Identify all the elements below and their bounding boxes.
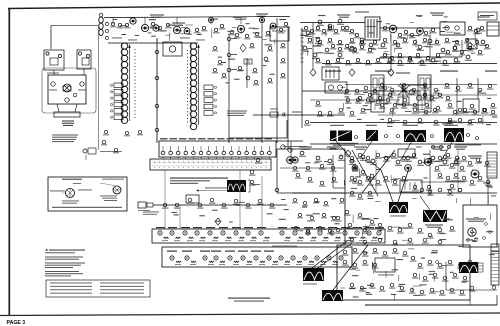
antenna input box 2 [77, 50, 91, 69]
tuner voltage box [229, 120, 287, 138]
wire link d [261, 176, 263, 229]
value label 5 [316, 52, 323, 53]
value label 175 [135, 35, 139, 36]
value label 33 [454, 33, 460, 34]
terminal strip dashed [300, 28, 304, 62]
component cluster audio3 16 [467, 46, 474, 51]
value label 26 [313, 45, 319, 46]
component cluster audio3 0 [330, 44, 337, 49]
component cluster right 3 [411, 88, 418, 93]
component cluster afc 11 [375, 180, 382, 185]
component cluster vert 21 [442, 276, 449, 281]
component cluster topband 7 [201, 26, 208, 31]
component cluster vert 16 [457, 263, 464, 268]
notes bullet line [46, 249, 86, 251]
CRT base strip bottom [491, 244, 499, 285]
component cluster vert 26 [369, 283, 376, 288]
value label 198 [490, 254, 495, 255]
terminal blob row 1 [385, 135, 388, 138]
wire segment 37 [393, 178, 401, 180]
component cluster audio2 15 [467, 26, 474, 31]
wire blob diag 4 [441, 142, 452, 161]
component cluster sound 11 [442, 160, 449, 166]
wire afc vertical b [457, 150, 459, 193]
value label 107 [350, 237, 356, 238]
labels above chart [160, 138, 272, 139]
value label 170 [234, 79, 240, 80]
value label 49 [442, 123, 448, 124]
component cluster mid2 8 [452, 110, 459, 115]
coil L3 IF transformer winding [190, 43, 197, 130]
wire segment 73 [356, 269, 360, 271]
value label 13 [369, 32, 374, 33]
component cluster agc 3 [372, 89, 379, 94]
terminal blob row 4 [467, 134, 470, 137]
component cluster afc 17 [453, 160, 460, 165]
value label 196 [486, 231, 493, 232]
terminal blob row 3 [431, 135, 434, 138]
component cluster midbus 2 [187, 198, 194, 203]
value label 101 [472, 241, 477, 242]
wire stubs top band [113, 17, 262, 24]
wire segment 56 [394, 203, 399, 205]
component cluster afc 13 [392, 180, 399, 185]
component cluster audio 4 [359, 38, 366, 44]
VHF tuner enclosure [48, 75, 86, 104]
label to radio channel [100, 151, 122, 152]
value label 140 [442, 265, 447, 266]
terminal tuner right [80, 82, 84, 86]
value label 41 [357, 119, 361, 120]
terminal E3 [78, 52, 81, 55]
wire IF top bus [108, 42, 198, 44]
component cluster agc 13 [327, 111, 334, 116]
value label 53 [487, 98, 491, 99]
wire segment 1 [406, 35, 408, 39]
value label 58 [387, 126, 392, 127]
component cluster belowsync 9 [305, 229, 311, 234]
value label 153 [279, 19, 286, 20]
wire blob row top [310, 122, 497, 124]
component cluster audio 29 [349, 46, 356, 52]
value label 169 [228, 59, 235, 60]
component cluster vert 2 [362, 251, 369, 256]
component cluster converter 1 [217, 60, 223, 65]
label focus control [378, 274, 394, 277]
wire row2 right gray [272, 245, 297, 248]
component cluster audio 19 [430, 58, 437, 64]
component cluster audio2 16 [473, 29, 480, 34]
value label 38 [416, 15, 423, 16]
component cluster vert 31 [419, 290, 426, 295]
value label 108 [424, 178, 428, 179]
value label 118 [299, 230, 303, 231]
value label 73 [385, 156, 392, 157]
component cluster audio 3 [344, 26, 351, 32]
component cluster sync 3 [330, 166, 337, 171]
component cluster mid2 15 [467, 120, 474, 125]
component cluster belowsync 8 [293, 226, 299, 231]
wire long vertical x288 [287, 27, 289, 149]
value label 132 [367, 285, 373, 286]
value label 120 [306, 215, 313, 216]
deflection yoke core [227, 180, 246, 192]
value label 14 [376, 21, 382, 22]
component cluster afc 19 [437, 173, 444, 178]
terminal blob row 0 [355, 136, 358, 139]
wire segment 63 [408, 248, 414, 250]
value label 127 [353, 297, 359, 298]
component cluster audio3 10 [415, 53, 422, 58]
component cluster agc 4 [382, 86, 389, 91]
tube V2 tuner lower [65, 98, 69, 102]
component cluster vert 25 [359, 286, 366, 291]
component cluster vert 28 [389, 283, 396, 288]
page bottom rule [0, 313, 500, 316]
junction socket 1 [155, 50, 159, 54]
component cluster sync 8 [249, 170, 256, 175]
component cluster afc 21 [453, 173, 460, 178]
component cluster converter 6 [249, 43, 255, 48]
test point diamond TP6 [215, 218, 221, 225]
value label 40 [384, 103, 388, 104]
wire segment 65 [433, 276, 435, 282]
component cluster horiz 4 [357, 194, 364, 199]
value label 25 [452, 41, 459, 42]
wire segment 53 [402, 239, 410, 241]
wire segment 79 [185, 24, 193, 26]
value label 65 [305, 162, 310, 163]
value label 114 [313, 213, 320, 214]
value label 109 [351, 188, 358, 189]
wire segment 34 [434, 90, 439, 92]
component cluster audio3 22 [345, 60, 352, 65]
value label 17 [300, 35, 307, 36]
label B+ boost [233, 17, 247, 20]
value label 134 [364, 252, 368, 253]
value label 138 [366, 294, 372, 295]
component cluster right 6 [444, 83, 451, 88]
value label 71 [423, 154, 430, 155]
label hot melt [455, 144, 481, 147]
component cluster right 10 [487, 84, 494, 89]
component cluster sound 12 [454, 156, 461, 162]
wire segment 33 [346, 100, 348, 104]
wire x430 vertical [429, 150, 431, 196]
component cluster audio3 14 [452, 46, 459, 51]
component cluster audio 27 [324, 48, 331, 54]
wire AGC bus 1 [302, 90, 420, 92]
component cluster right 9 [477, 88, 484, 93]
value label 179 [113, 19, 117, 20]
value label 146 [399, 284, 406, 285]
test point diamond TP5 [345, 150, 351, 157]
CRT neck strip [487, 152, 497, 178]
wire audio row bottom [322, 63, 497, 65]
component cluster sound 4 [349, 159, 356, 165]
component cluster right 8 [467, 83, 474, 88]
wire row0 to row1 link a [164, 170, 166, 229]
yoke bracket [248, 180, 260, 192]
value label 44 [347, 107, 351, 108]
value label 22 [417, 49, 421, 50]
component cluster agc 10 [315, 101, 322, 106]
component cluster horiz 36 [437, 240, 444, 245]
value label 59 [363, 92, 368, 93]
component cluster horiz 9 [412, 185, 419, 190]
label 4.5MC trans [355, 12, 369, 13]
label 1B3GT [450, 181, 462, 182]
wire box1 to tuner [53, 70, 55, 75]
terminal E4 [86, 54, 89, 57]
component cluster mid2 16 [477, 118, 484, 123]
component cluster right 2 [401, 83, 408, 88]
value label 194 [474, 238, 478, 239]
component cluster right 23 [402, 120, 409, 125]
value label 165 [265, 44, 272, 45]
value label 19 [349, 50, 355, 51]
component cluster audio 26 [312, 53, 319, 59]
component cluster sound 1 [315, 156, 322, 162]
wire segment 6 [328, 25, 330, 31]
picture tube socket [468, 228, 476, 236]
value label 3 [444, 16, 448, 17]
wire segment 17 [394, 48, 396, 52]
component cluster belowsync 1 [302, 201, 308, 206]
value label 84 [447, 189, 451, 190]
component cluster vert 18 [412, 273, 419, 278]
value label 86 [491, 195, 496, 196]
component cluster horiz 28 [377, 223, 384, 228]
test point diamond TP4 [388, 69, 394, 76]
value label 158 [179, 25, 183, 26]
trap box top [270, 27, 289, 41]
wire segment 11 [348, 44, 350, 51]
wire segment 64 [341, 287, 346, 289]
wire audio section lower [345, 84, 497, 86]
component cluster afc 29 [457, 188, 464, 193]
bottom right outline [365, 295, 497, 305]
page border frame left [8, 9, 10, 316]
wire slug arrow L2 [128, 44, 130, 121]
value label 63 [364, 109, 371, 110]
value label 70 [324, 161, 328, 162]
component cluster horiz 19 [449, 163, 456, 168]
component cluster belowsync 0 [292, 198, 298, 203]
vert section box [337, 245, 470, 300]
value label 141 [421, 258, 425, 259]
component cluster audio 8 [417, 45, 424, 51]
value label 94 [444, 218, 450, 219]
wire segment 18 [429, 61, 437, 63]
component cluster horiz 13 [427, 158, 434, 163]
label RF AMP 6BZ7A [150, 15, 164, 18]
component cluster horiz 21 [484, 161, 491, 166]
wire segment 2 [308, 37, 312, 39]
component cluster afc 14 [401, 176, 408, 181]
component cluster sound 5 [360, 155, 367, 161]
component cluster sync 10 [255, 158, 262, 163]
component cluster afc 8 [349, 176, 356, 181]
wire segment 77 [211, 29, 213, 38]
component cluster audio3 6 [382, 53, 389, 58]
component cluster horiz 0 [352, 166, 359, 171]
tube V14 audio out [417, 28, 424, 35]
wire converter v3 [261, 24, 263, 143]
tuner pedestal left [57, 104, 59, 112]
wire segment 44 [375, 201, 381, 203]
component cluster topband 0 [110, 22, 117, 27]
wire right bus 1 [378, 94, 497, 96]
value label 51 [477, 91, 481, 92]
component cluster audio2 27 [402, 38, 409, 43]
component cluster audio3 4 [359, 45, 366, 50]
value label 182 [284, 209, 289, 210]
value label 47 [363, 105, 368, 106]
component cluster audio2 10 [397, 33, 404, 38]
component cluster vert 22 [452, 273, 459, 278]
component cluster sync 7 [331, 177, 338, 182]
component cluster audio2 18 [307, 38, 314, 43]
label vert trans [303, 283, 317, 286]
component cluster afc 25 [485, 180, 492, 185]
component cluster right 20 [481, 108, 488, 113]
value label 117 [320, 229, 326, 230]
component cluster right 24 [417, 118, 424, 123]
vert output transformer T6 core [459, 262, 478, 273]
value label 55 [450, 121, 458, 122]
component cluster audio 22 [465, 55, 472, 61]
value label 199 [458, 246, 463, 247]
wire vert diag 2 [318, 243, 352, 268]
wire segment 55 [362, 229, 364, 238]
component cluster converter 9 [280, 58, 286, 63]
terminal blob row 2 [397, 135, 400, 138]
label sound row 3 [431, 147, 444, 150]
wire segment 47 [488, 187, 493, 189]
tube V11 [259, 17, 264, 22]
wire segment 14 [307, 48, 309, 56]
value label 32 [400, 37, 406, 38]
value label 88 [369, 185, 374, 186]
component cluster mid2 14 [457, 118, 464, 123]
component cluster audio3 24 [365, 60, 372, 65]
wire link c [179, 205, 181, 229]
value label 37 [307, 34, 311, 35]
HV transformer core [423, 210, 447, 222]
wire vertical x333 [332, 155, 334, 188]
component cluster mid2 6 [437, 93, 444, 98]
component cluster vert 6 [402, 251, 409, 256]
wire segment 70 [398, 275, 400, 281]
wire segment 3 [385, 54, 390, 56]
value label 54 [483, 93, 487, 94]
component cluster topband 3 [150, 22, 157, 27]
wire antenna feed horizontal [51, 25, 98, 27]
value label 189 [279, 219, 286, 220]
wire segment 13 [384, 51, 389, 53]
phono jack box [467, 39, 477, 49]
value label 85 [483, 182, 490, 183]
tube V4 [130, 18, 136, 24]
value label 167 [270, 74, 275, 75]
component cluster vert 32 [429, 288, 436, 293]
discriminator transformer box 0 [371, 75, 384, 112]
wire bottom box extension [365, 304, 497, 306]
wire converter v2 [246, 58, 248, 88]
wire segment 10 [390, 33, 392, 41]
component cluster audio2 25 [382, 38, 389, 43]
value label 152 [211, 19, 218, 20]
value label 105 [366, 219, 372, 220]
value label 137 [431, 252, 437, 253]
component cluster audio3 5 [367, 48, 374, 53]
component cluster horiz 22 [352, 178, 359, 183]
wire segment 23 [469, 119, 474, 121]
component cluster afc 23 [469, 180, 476, 185]
component cluster audio2 8 [354, 33, 361, 38]
component cluster agc 6 [355, 98, 362, 103]
channel selector switch wafer [150, 159, 271, 170]
value label 115 [307, 220, 312, 221]
wire row0 to row1 link b [239, 170, 241, 229]
component cluster horiz 37 [422, 238, 429, 243]
component cluster horiz 10 [419, 188, 426, 193]
component cluster agc 0 [344, 89, 351, 94]
value label 21 [372, 49, 376, 50]
value label 160 [253, 32, 260, 33]
component cluster horiz 29 [387, 226, 394, 231]
value label 111 [439, 239, 446, 240]
component cluster horiz 24 [347, 223, 354, 228]
wire top band [104, 17, 290, 18]
value label 191 [212, 210, 218, 211]
component cluster sync 5 [307, 177, 314, 182]
value label 87 [478, 161, 483, 162]
value label 181 [237, 205, 241, 206]
component cluster sync 9 [249, 180, 256, 185]
junction socket 4 [155, 128, 159, 132]
wire afc diag 1 [352, 150, 378, 196]
component cluster audio2 34 [474, 40, 481, 45]
label sound row 0 [299, 147, 312, 150]
component cluster sync 0 [292, 166, 299, 171]
component cluster agc 19 [412, 103, 419, 108]
component cluster vert 9 [352, 263, 359, 268]
wire segment 45 [343, 180, 345, 185]
wire segment 81 [240, 29, 242, 33]
value label 23 [308, 48, 312, 49]
component cluster sync 1 [305, 166, 312, 171]
component cluster sound 10 [430, 156, 437, 162]
component cluster sync 4 [295, 173, 302, 178]
wire audio v3 [429, 30, 431, 57]
value label 136 [431, 252, 438, 253]
tube row 2 labels [167, 251, 274, 252]
value label 24 [440, 31, 445, 32]
wire horiz y188 [333, 187, 345, 189]
value label 76 [454, 163, 461, 164]
label IF AMP 6CB6A [172, 23, 185, 26]
value label 15 [409, 57, 415, 58]
component cluster converter 4 [237, 66, 243, 71]
component cluster converter 0 [212, 46, 218, 51]
component cluster converter 8 [280, 43, 286, 48]
value label 61 [486, 124, 491, 125]
wire segment 25 [360, 93, 365, 95]
component cluster vert 19 [422, 276, 429, 281]
value label 7 [369, 26, 376, 27]
